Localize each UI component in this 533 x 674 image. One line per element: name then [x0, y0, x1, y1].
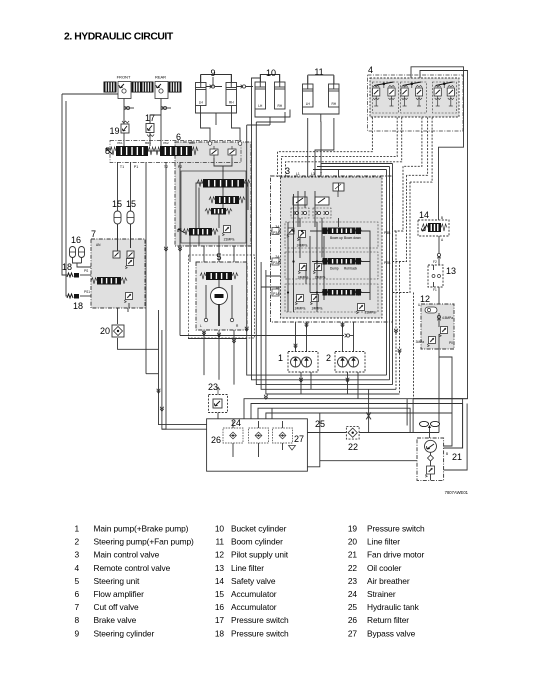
svg-text:15: 15 [126, 199, 136, 209]
svg-text:Pilot supply unit: Pilot supply unit [231, 550, 289, 560]
bypass X [366, 412, 371, 419]
svg-text:19: 19 [348, 524, 358, 534]
svg-text:LH: LH [258, 104, 263, 108]
svg-text:Cut off valve: Cut off valve [94, 602, 140, 612]
svg-text:11: 11 [216, 537, 225, 547]
wire: return line bundle [247, 125, 387, 375]
main control valve box 3 outer [271, 176, 393, 322]
svg-text:LH: LH [199, 101, 204, 105]
svg-text:12: 12 [420, 294, 430, 304]
svg-text:Pressure switch: Pressure switch [231, 615, 289, 625]
box7 relief [125, 259, 133, 269]
svg-text:LH: LH [306, 102, 311, 106]
wire: rear brake down-line [160, 97, 162, 146]
svg-text:4: 4 [368, 65, 373, 75]
tank level mark [289, 446, 296, 451]
svg-text:18: 18 [62, 262, 72, 272]
svg-text:Main control valve: Main control valve [94, 550, 160, 560]
svg-text:16: 16 [71, 235, 81, 245]
svg-text:Dump: Dump [330, 267, 339, 271]
svg-text:Brake valve: Brake valve [94, 615, 137, 625]
wire: cutoff drop 20 [117, 308, 119, 324]
svg-text:Steering pump(+Fan pump): Steering pump(+Fan pump) [94, 537, 195, 547]
svg-text:27: 27 [348, 628, 358, 638]
svg-text:PS: PS [84, 269, 88, 273]
svg-text:Line filter: Line filter [367, 537, 400, 547]
svg-text:Boom up: Boom up [330, 236, 343, 240]
wire: fan right lines [444, 399, 463, 448]
svg-text:13: 13 [215, 563, 225, 573]
svg-text:3MPa: 3MPa [416, 340, 425, 344]
svg-text:11: 11 [314, 67, 323, 77]
fan symbol [420, 421, 440, 428]
wire: cooler feed [307, 432, 439, 434]
svg-text:14: 14 [215, 576, 225, 586]
svg-text:16: 16 [215, 602, 225, 612]
svg-text:21MPa: 21MPa [365, 311, 376, 315]
svg-text:22: 22 [348, 563, 358, 573]
svg-text:RH: RH [331, 102, 336, 106]
svg-text:19: 19 [109, 126, 119, 136]
svg-text:24MPa: 24MPa [295, 307, 306, 311]
svg-text:12: 12 [215, 550, 225, 560]
motor diamond [428, 455, 434, 461]
wire: box3 left port stubs [261, 276, 280, 287]
flow amplifier box 6 [175, 142, 251, 246]
wire: cyl9 to box6 D ports [201, 106, 211, 144]
svg-text:10: 10 [215, 524, 225, 534]
bucket cylinder RH [275, 74, 286, 109]
svg-text:26: 26 [211, 435, 221, 445]
svg-text:24MPa: 24MPa [298, 276, 309, 280]
steering unit gerotor [211, 288, 228, 305]
svg-text:Pb2: Pb2 [163, 141, 169, 145]
box7 spool [97, 277, 121, 285]
box3 pilot checks [293, 197, 307, 205]
svg-text:Oil cooler: Oil cooler [367, 563, 402, 573]
steering unit box 5 outer [189, 255, 255, 338]
box3 top small valve [333, 183, 344, 191]
svg-text:F1: F1 [433, 288, 437, 292]
svg-text:P1A: P1A [273, 292, 280, 296]
steering unit spool [206, 272, 232, 280]
svg-text:25: 25 [315, 419, 325, 429]
svg-text:Pressure switch: Pressure switch [231, 628, 289, 638]
svg-text:RH: RH [229, 101, 234, 105]
svg-text:B: B [441, 216, 443, 220]
svg-text:REAR: REAR [155, 75, 166, 80]
svg-text:23: 23 [348, 576, 358, 586]
svg-text:BR2: BR2 [189, 141, 195, 145]
accumulator 15 b [127, 211, 134, 224]
svg-text:5: 5 [74, 576, 79, 586]
wire: front brake down-line [123, 97, 125, 146]
box3 dump reliefs [298, 264, 306, 274]
svg-text:Pressure switch: Pressure switch [367, 524, 425, 534]
svg-text:Accumulator: Accumulator [231, 602, 277, 612]
wire: steering pair to tank [159, 330, 207, 425]
svg-text:Remote control valve: Remote control valve [94, 563, 171, 573]
svg-text:P1: P1 [134, 165, 138, 169]
steering cylinder LH [196, 75, 207, 106]
wire: brake valve drops [118, 162, 131, 211]
box12 relief [439, 327, 447, 337]
svg-text:18: 18 [73, 301, 83, 311]
wire: box3 top wrap lines [321, 164, 393, 385]
box6 relief 21MPa [222, 226, 230, 236]
svg-text:Accumulator: Accumulator [231, 589, 277, 599]
wire: valve17 branch [150, 115, 161, 146]
svg-text:Steering unit: Steering unit [94, 576, 140, 586]
svg-text:B: B [446, 452, 448, 456]
box3 third spool [328, 289, 356, 296]
svg-text:Line filter: Line filter [231, 563, 264, 573]
cut off valve box 7 [91, 239, 145, 308]
svg-text:20: 20 [100, 326, 110, 336]
wire: box5 port horizontal [188, 338, 247, 340]
svg-text:AN: AN [96, 243, 101, 247]
check valve rear [162, 106, 167, 110]
svg-text:L3: L3 [311, 172, 315, 176]
svg-text:Boom down: Boom down [344, 236, 361, 240]
svg-text:T: T [320, 172, 322, 176]
svg-text:Bucket cylinder: Bucket cylinder [231, 524, 287, 534]
box12 accumulator [425, 307, 437, 313]
box12 relief2 [427, 337, 435, 347]
motor relief [425, 466, 434, 477]
svg-text:1: 1 [278, 353, 283, 363]
svg-text:7: 7 [91, 229, 96, 239]
legend [74, 524, 425, 639]
bypass valve 27 [273, 428, 293, 443]
wire: pilot verticals along box3 right [393, 166, 403, 231]
wire: cyl9 check branches [206, 86, 223, 88]
svg-text:7: 7 [74, 602, 79, 612]
svg-text:23: 23 [208, 382, 218, 392]
svg-text:2. HYDRAULIC CIRCUIT: 2. HYDRAULIC CIRCUIT [64, 32, 174, 43]
svg-text:2: 2 [326, 353, 331, 363]
svg-text:25: 25 [348, 602, 358, 612]
wire: pilot drops from box4 right steps [403, 117, 422, 166]
box3 boom spool [328, 228, 356, 235]
svg-text:P0: P0 [449, 341, 453, 345]
svg-text:Return filter: Return filter [367, 615, 409, 625]
box6 lower spool [189, 228, 212, 236]
svg-text:7807AWE01: 7807AWE01 [445, 490, 469, 495]
box3 inner wires [298, 191, 315, 227]
svg-text:FRONT: FRONT [117, 75, 131, 80]
remote control valve units [373, 82, 399, 113]
wire: boom cyl lines [307, 75, 309, 84]
svg-text:L1: L1 [296, 172, 300, 176]
svg-text:17: 17 [215, 615, 225, 625]
box3 boom reliefs [287, 228, 294, 237]
svg-text:15: 15 [112, 199, 122, 209]
box6 main spool [203, 179, 244, 188]
wire: right column through 14 13 12 [438, 236, 440, 265]
steering unit box 5 [196, 262, 247, 330]
box6 inner wires [219, 188, 223, 263]
wire: supply to front brake [62, 93, 118, 95]
boom cylinder RH [329, 76, 340, 107]
svg-text:Fan drive motor: Fan drive motor [367, 550, 424, 560]
svg-text:1: 1 [74, 524, 79, 534]
bucket cylinder LH [255, 74, 266, 109]
remote control valve box 4 outer [368, 75, 464, 131]
svg-text:24: 24 [348, 589, 358, 599]
box6 valve 3 [211, 208, 226, 215]
wire: pump suction lines [301, 372, 348, 394]
svg-text:Hydraulic tank: Hydraulic tank [367, 602, 420, 612]
svg-text:3: 3 [285, 166, 290, 176]
wire: mid horizontals [180, 335, 344, 337]
wire: bucket cyl lines [260, 75, 262, 83]
svg-text:14: 14 [419, 210, 429, 220]
svg-text:21: 21 [348, 550, 358, 560]
flow chevrons [341, 323, 345, 327]
wire: tank suction outlet [281, 413, 320, 467]
svg-text:P2A: P2A [273, 261, 280, 265]
svg-text:15: 15 [215, 589, 225, 599]
svg-text:21MPa: 21MPa [224, 238, 235, 242]
svg-text:10: 10 [266, 68, 276, 78]
svg-text:2A: 2A [275, 255, 280, 259]
hydraulic tank 25 [207, 419, 308, 471]
remote control valve box 4 [370, 78, 459, 117]
svg-text:Strainer: Strainer [367, 589, 396, 599]
svg-text:9: 9 [210, 68, 215, 78]
svg-text:3: 3 [74, 550, 79, 560]
svg-text:9: 9 [74, 628, 79, 638]
svg-text:Roll back: Roll back [344, 267, 358, 271]
box3 third reliefs [295, 295, 303, 305]
pilot supply unit box 12 [421, 304, 454, 349]
box3 left port squares [272, 228, 279, 235]
boom cylinder LH [303, 76, 314, 107]
svg-text:24: 24 [231, 418, 241, 428]
return filter 26 [249, 428, 269, 443]
svg-text:F2: F2 [433, 260, 437, 264]
box3 main relief 21MPa [356, 304, 364, 314]
wire: bucket cyl links to risers [247, 124, 270, 126]
box3 dump spool [328, 258, 356, 265]
svg-text:24MPa: 24MPa [297, 244, 308, 248]
svg-text:27: 27 [294, 434, 304, 444]
svg-text:T1: T1 [120, 165, 124, 169]
svg-text:6: 6 [74, 589, 79, 599]
svg-text:18: 18 [215, 628, 225, 638]
svg-text:Steering cylinder: Steering cylinder [94, 628, 155, 638]
svg-text:RH: RH [277, 104, 282, 108]
svg-text:Main pump(+Brake pump): Main pump(+Brake pump) [94, 524, 189, 534]
check valve front [125, 106, 130, 110]
svg-text:BR1: BR1 [145, 141, 151, 145]
box12 check [437, 315, 441, 320]
svg-text:L: L [200, 324, 202, 328]
steering cylinder RH [226, 75, 237, 106]
svg-text:Bypass valve: Bypass valve [367, 628, 416, 638]
accumulator 15 a [114, 211, 121, 224]
box6 pilot valves [210, 146, 218, 158]
box3 parallel gallery verticals [288, 194, 294, 312]
svg-text:P2B: P2B [384, 261, 391, 265]
svg-text:1A: 1A [275, 286, 280, 290]
svg-text:22: 22 [348, 442, 358, 452]
svg-text:4: 4 [74, 563, 79, 573]
svg-text:Pb1: Pb1 [117, 141, 123, 145]
wire: box5 drops [203, 330, 205, 375]
svg-text:Flow amplifier: Flow amplifier [94, 589, 145, 599]
svg-text:Boom cylinder: Boom cylinder [231, 537, 283, 547]
box3 spool end caps [323, 228, 328, 235]
svg-text:Safety valve: Safety valve [231, 576, 276, 586]
wire: left drop to pressure switches 18 [62, 94, 67, 275]
svg-text:3A: 3A [275, 225, 280, 229]
box7 small valves [113, 251, 120, 258]
svg-text:PS1: PS1 [84, 290, 90, 294]
box3 section sub-boxes [285, 222, 378, 248]
svg-text:13: 13 [446, 266, 456, 276]
box6 valve 2 [215, 196, 239, 204]
strainer 24 [223, 428, 243, 443]
main control valve box 3 [281, 177, 383, 318]
wire: top right run [411, 67, 464, 220]
svg-text:26: 26 [348, 615, 358, 625]
wire: steering cyl LH lines [200, 75, 202, 83]
svg-text:P3B: P3B [384, 231, 391, 235]
svg-text:P3A: P3A [273, 231, 280, 235]
wire: pilot drops from box4 left steps [278, 117, 373, 177]
svg-text:4.5MPa: 4.5MPa [442, 316, 453, 320]
svg-text:17: 17 [145, 113, 155, 123]
svg-text:Air breather: Air breather [367, 576, 410, 586]
box3 junction dots [292, 230, 294, 232]
svg-text:8: 8 [74, 615, 79, 625]
wire: box6 to box5 links [204, 246, 234, 262]
wire: boom cyl drops into box3 top [320, 122, 322, 177]
svg-text:20: 20 [348, 537, 358, 547]
svg-text:21: 21 [452, 452, 462, 462]
svg-text:2: 2 [74, 537, 79, 547]
